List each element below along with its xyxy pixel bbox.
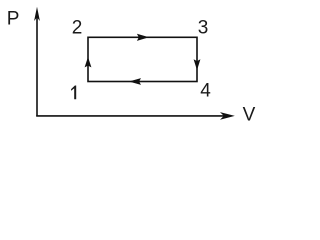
arrow 2->3 (right, top edge) <box>137 34 149 41</box>
V axis (horizontal) <box>36 112 235 120</box>
state label 1 <box>71 86 76 100</box>
cycle rectangle 1-2-3-4 <box>88 37 197 81</box>
P axis (vertical) <box>34 7 40 116</box>
svg-text:P: P <box>7 9 20 30</box>
arrow 3->4 (down, right edge) <box>194 59 201 70</box>
arrow 4->1 (left, bottom edge) <box>129 78 141 85</box>
svg-text:V: V <box>243 105 256 126</box>
svg-text:4: 4 <box>200 80 211 101</box>
arrow 1->2 (up, left edge) <box>85 57 92 68</box>
svg-text:3: 3 <box>198 17 209 38</box>
svg-text:2: 2 <box>72 17 83 38</box>
